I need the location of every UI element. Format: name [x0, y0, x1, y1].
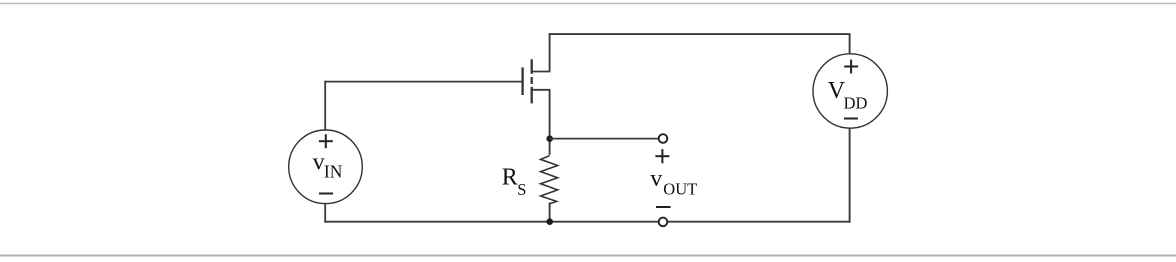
plus sign of vIN [319, 134, 333, 148]
wire vin bottom vertical [324, 203, 326, 222]
node junction top [546, 135, 553, 142]
wire vin top vertical [324, 81, 326, 131]
svg-text:OUT: OUT [663, 179, 697, 198]
minus sign of vIN [319, 193, 333, 195]
svg-text:IN: IN [324, 161, 343, 181]
wire top rail [549, 33, 851, 35]
transistor Q1 gate bar [521, 67, 523, 95]
plus sign of vout [655, 149, 669, 163]
resistor RS [541, 156, 558, 204]
wire source vertical [549, 90, 551, 155]
svg-text:v: v [313, 150, 325, 176]
transistor Q1 drain stub [532, 71, 551, 73]
svg-text:S: S [517, 180, 526, 199]
source VDD [813, 54, 887, 128]
transistor Q1 source stub [532, 89, 551, 91]
wire vdd bottom vertical [849, 128, 851, 223]
wire gate lead [324, 81, 521, 83]
wire drain vertical [549, 33, 551, 71]
svg-text:R: R [502, 165, 518, 191]
node junction bottom [546, 218, 553, 225]
transistor Q1 channel dashes [531, 59, 533, 103]
wire output top [550, 138, 659, 140]
plus sign of VDD [844, 60, 858, 74]
wire bottom rail [324, 221, 850, 223]
minus sign of VDD [844, 118, 858, 120]
svg-text:DD: DD [844, 93, 868, 112]
terminal vout bottom [659, 218, 668, 227]
minus sign of vout [656, 206, 671, 208]
terminal vout top [659, 134, 668, 143]
wire resistor bottom lead [549, 203, 551, 223]
svg-text:v: v [650, 166, 662, 192]
wire vdd top vertical [849, 34, 851, 54]
source vIN [289, 130, 363, 204]
